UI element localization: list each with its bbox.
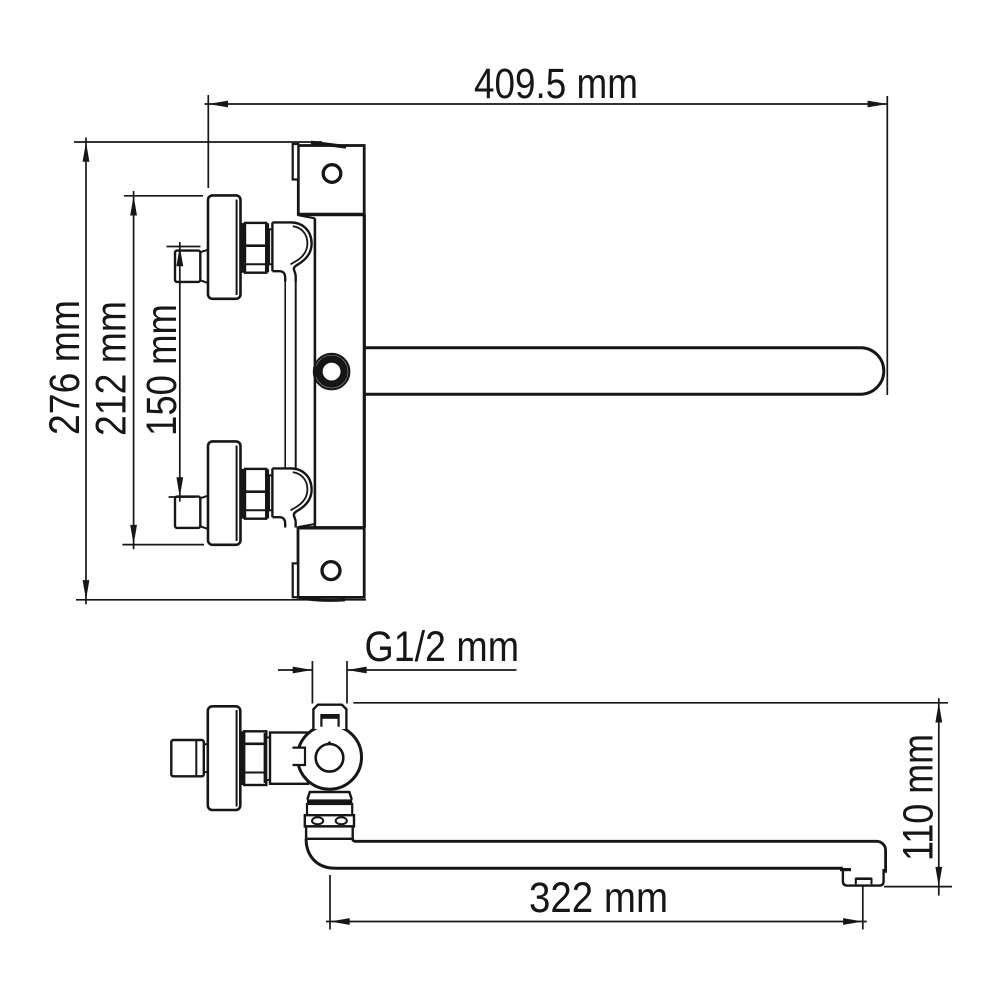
svg-text:322 mm: 322 mm: [529, 875, 668, 922]
svg-text:276 mm: 276 mm: [42, 300, 89, 435]
svg-text:212 mm: 212 mm: [89, 301, 136, 436]
svg-text:409.5 mm: 409.5 mm: [474, 61, 638, 108]
svg-text:G1/2 mm: G1/2 mm: [365, 624, 520, 671]
svg-text:110 mm: 110 mm: [895, 734, 942, 861]
svg-text:150 mm: 150 mm: [139, 304, 186, 436]
